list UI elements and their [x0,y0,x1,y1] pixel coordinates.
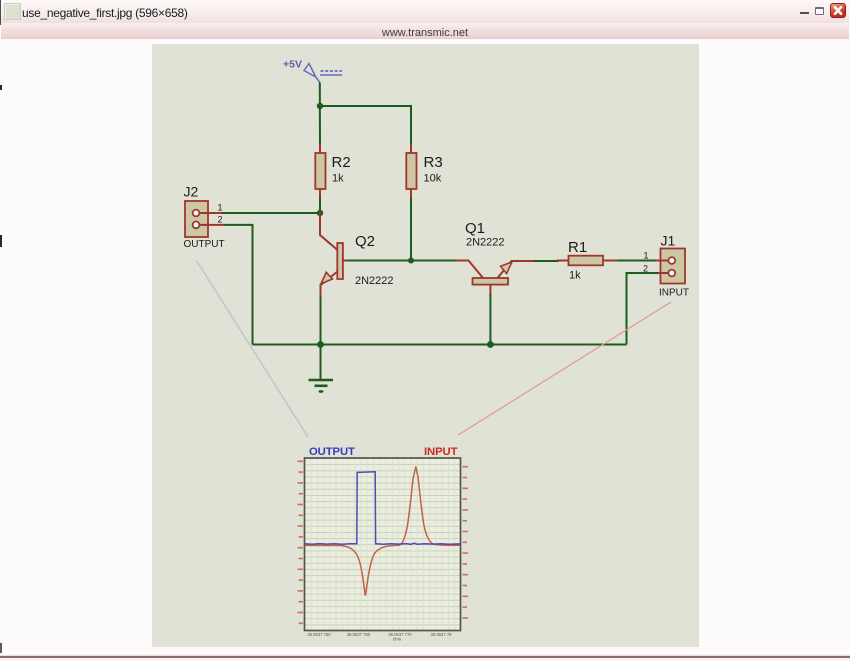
Q1 emitter lead [498,261,537,278]
svg-text:1k: 1k [332,173,344,185]
J2 pin2 lead [200,224,227,226]
svg-text:t/ms: t/ms [393,637,401,642]
svg-text:Q1: Q1 [465,220,485,237]
resistor R2 lead top [319,144,321,153]
wire power vertical [319,83,321,149]
svg-text:38.0637 760: 38.0637 760 [347,632,371,637]
svg-text:R1: R1 [568,239,587,256]
wire R2 to junction [319,198,321,213]
connector J2 [185,201,227,237]
svg-text:INPUT: INPUT [424,446,458,458]
Q2 emitter arrow [321,272,333,284]
svg-text:R2: R2 [332,154,351,171]
Q2 base lead [343,260,350,262]
Q1 collector lead [456,261,483,279]
svg-text:1: 1 [218,203,223,213]
wire Q1 base to rail [489,294,491,345]
J1 pin2 lead [656,272,668,274]
Q1 bar [473,278,509,285]
resistor R1 [569,256,604,266]
power symbol [304,64,320,83]
wire ground rail [253,344,627,346]
svg-text:J1: J1 [661,233,676,249]
node rail junction left [317,341,324,348]
svg-text:1: 1 [644,251,649,261]
power net label dashes [321,70,343,72]
resistor R2 [315,153,325,189]
wire R3 down to base line [410,198,412,261]
svg-text:Q2: Q2 [355,233,375,250]
wire Q1 emitter to R1 [534,260,559,262]
resistor R3 [406,153,416,189]
graph x axis labels [307,632,452,642]
Q1 emitter arrow [501,262,513,274]
resistor R1 lead left [557,260,569,262]
transistor Q1 [456,261,536,297]
wire Q2 emitter to rail [320,297,322,345]
svg-text:38.0637 78: 38.0637 78 [431,632,453,637]
transistor Q2 [320,211,350,299]
wire R1 to J1 pin1 [617,260,658,262]
svg-text:2N2222: 2N2222 [355,275,394,287]
node power junction [317,103,323,109]
svg-text:38.0637 750: 38.0637 750 [307,632,331,637]
graph left tick labels [298,461,304,625]
J1 pin1 lead [656,260,668,262]
svg-text:J2: J2 [184,184,199,200]
svg-text:OUTPUT: OUTPUT [184,239,225,250]
trace INPUT (red) [305,467,460,596]
resistor R2 lead bottom [319,189,321,200]
resistor R3 lead bottom [410,189,412,200]
trace OUTPUT (blue) [305,472,460,545]
Q2 emitter lead [321,272,338,300]
svg-text:2: 2 [218,215,223,225]
svg-text:10k: 10k [424,173,442,185]
J2 pin1 lead [200,212,223,214]
Q2 bar [337,243,343,279]
node rail junction right [487,341,494,348]
graph right tick labels [463,466,469,619]
Q2 collector lead [320,211,338,250]
resistor R1 lead right [603,260,619,262]
wire J2 pin1 to R2 bottom junction [221,212,321,214]
wire top horizontal to R3 [320,106,411,148]
node R2 junction [317,210,323,216]
wire J2 pin2 down to ground rail [225,225,253,345]
svg-text:2N2222: 2N2222 [466,237,505,249]
svg-text:OUTPUT: OUTPUT [309,446,355,458]
svg-text:1k: 1k [569,270,581,282]
pointer line to INPUT (red) [458,302,671,435]
pointer line to OUTPUT (blue) [197,261,309,437]
svg-text:R3: R3 [424,154,443,171]
wire J1 pin2 down to rail [627,273,659,345]
svg-text:INPUT: INPUT [659,288,689,299]
resistor R3 lead top [410,144,412,153]
node base junction [408,258,414,264]
wire Q2 base to Q1 collector [348,260,458,262]
ground [309,345,334,393]
svg-text:+5V: +5V [283,59,302,71]
Q1 base lead [489,285,491,296]
connector J1 [656,249,685,284]
